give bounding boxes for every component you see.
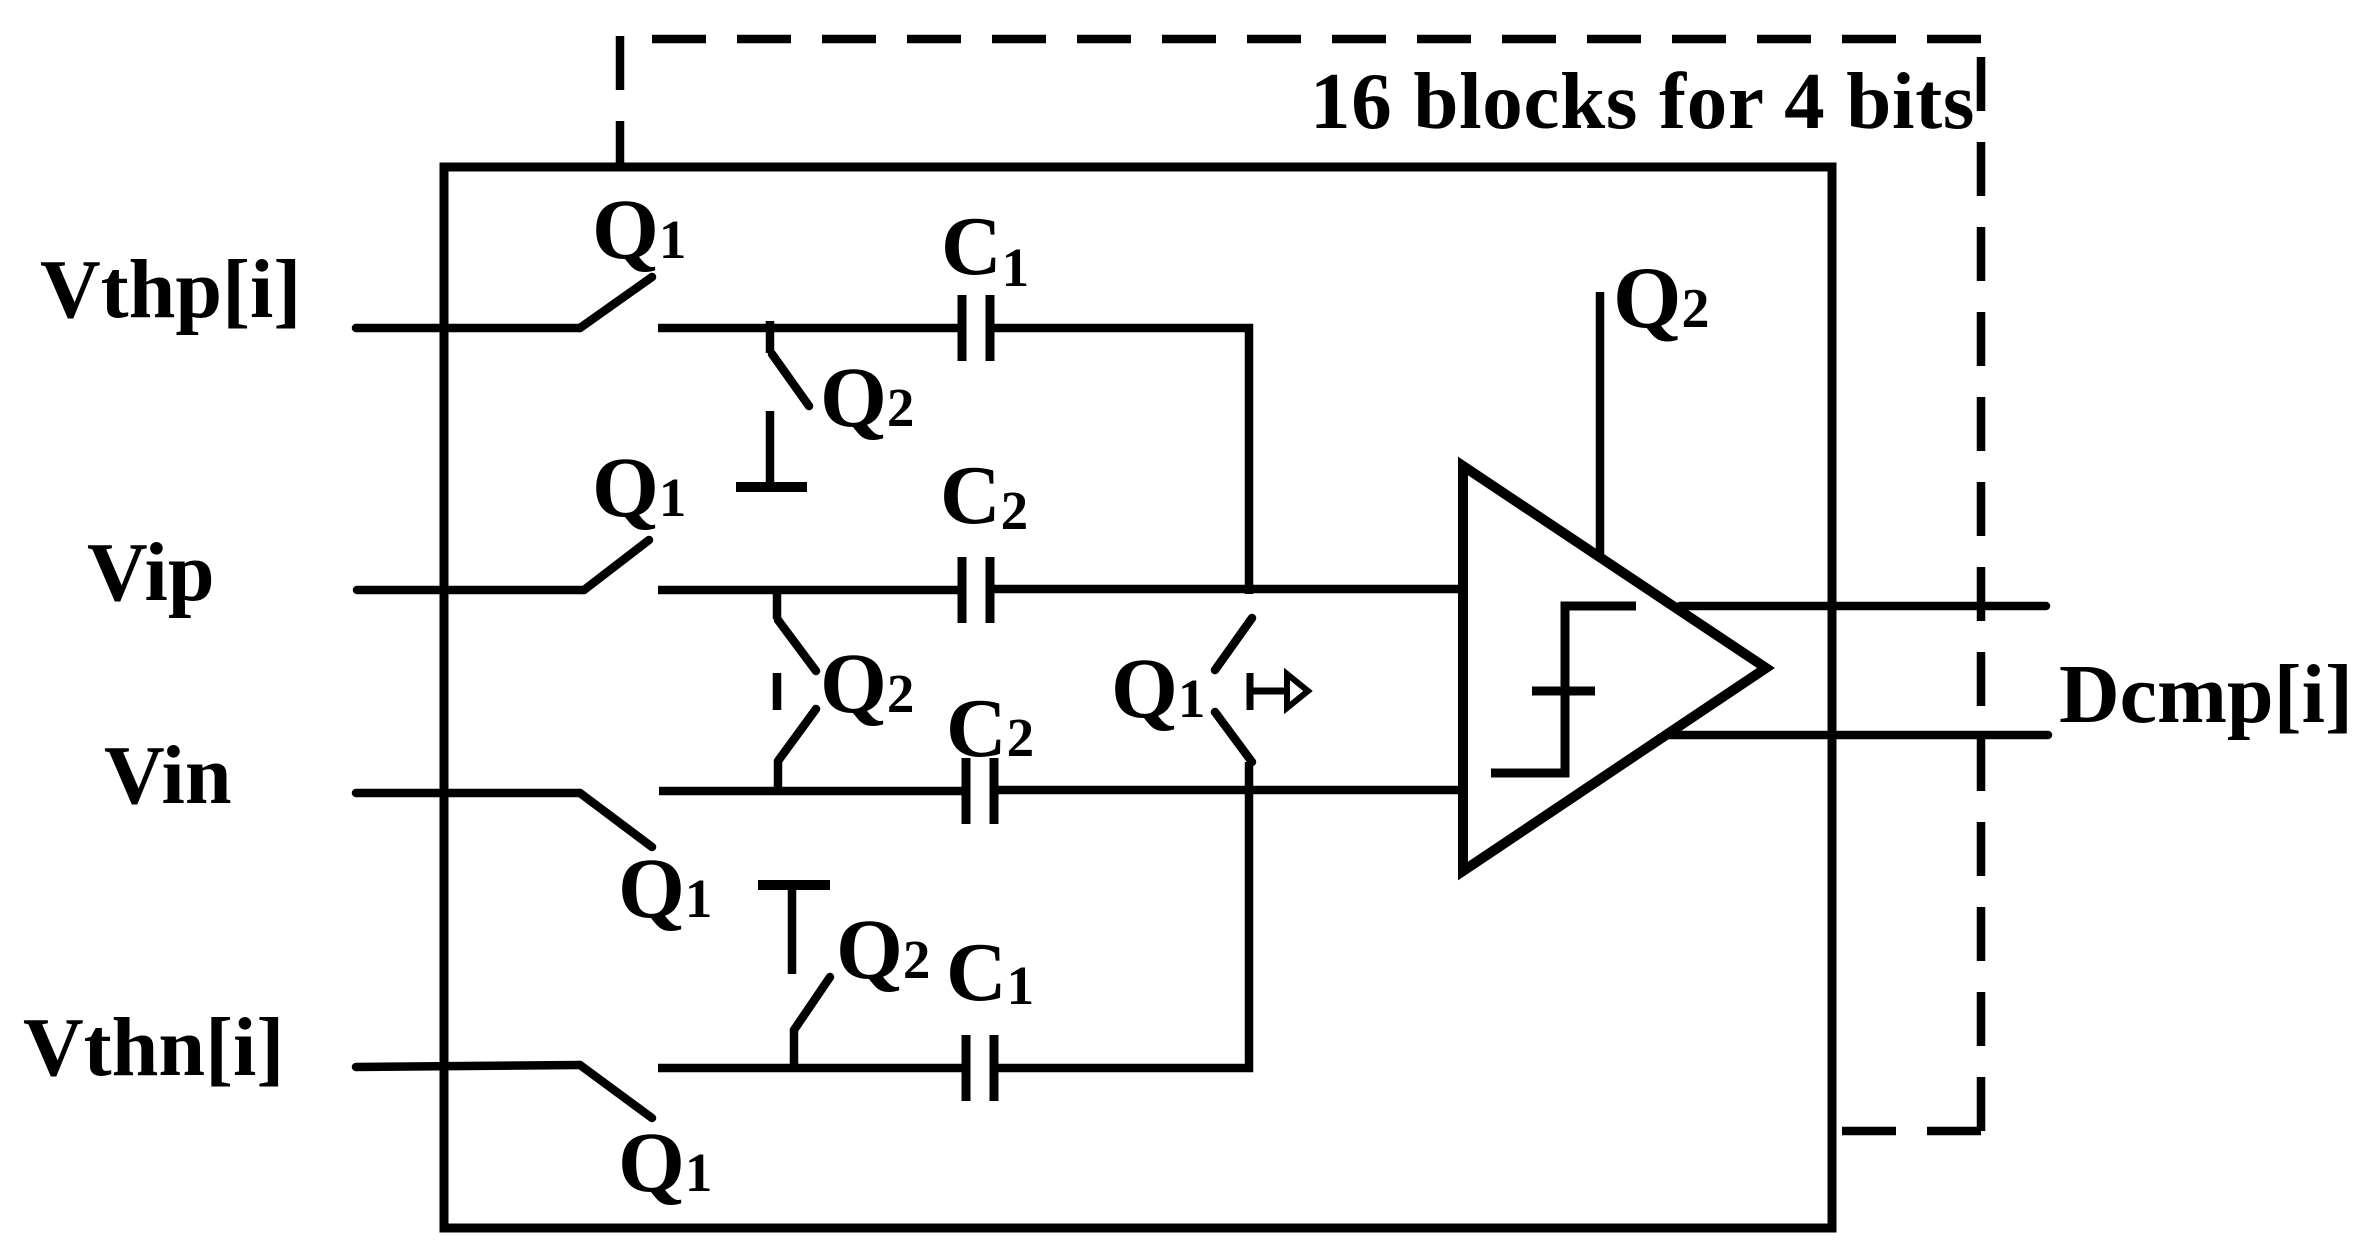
svg-text:Vin: Vin [104,729,232,822]
switch Q2 middle: stub from row2 wire [773,591,782,619]
contact post of Q2 top [766,411,775,487]
hysteresis symbol inside comparator [1491,606,1636,773]
wire row1 cap to corner [994,328,1249,594]
wire Vin input stub [356,789,580,798]
wire row4 to C1 [658,1064,962,1073]
capacitor C1 row1 [958,295,967,361]
switch Q2 middle lower arm [778,709,816,761]
comparator block box [444,167,1832,1228]
arrow symbol bar [1247,673,1254,710]
svg-text:16 blocks for 4 bits: 16 blocks for 4 bits [1310,56,1975,146]
wire row3 to C2 [659,787,962,796]
wire row1 to C1 [658,324,958,333]
capacitor C1 row4 [962,1035,971,1101]
switch Q2 middle stub to row3 wire [774,761,783,792]
arrow symbol shaft [1250,688,1286,695]
svg-text:Vthn[i]: Vthn[i] [23,1001,284,1094]
switch Q1 middle upper arm [1215,618,1252,670]
capacitor C2 row3 [962,758,971,824]
wire Vip input stub [357,586,584,595]
dashed block boundary: bottom edge [1832,1127,1981,1136]
svg-text:Vip: Vip [87,526,215,619]
wire row3 cap to comparator - input [998,786,1463,795]
dashed block boundary: left edge [616,36,625,167]
switch Q1 row3 arm [580,793,652,847]
switch Q2 bottom stub to row4 wire [790,1030,799,1066]
dashed block boundary: right edge [1977,39,1986,1131]
contact post of Q2 bottom [758,880,830,890]
switch Q2 top: stub from row1 wire [766,321,775,353]
wire row2 to C2 [658,586,958,595]
switch Q2 middle contact tick [773,673,782,710]
dashed block boundary: top edge [628,35,1981,44]
wire comparator output upper [1680,602,2046,611]
switch Q2 top arm [772,354,809,406]
switch Q2 bottom arm [794,977,830,1030]
switch Q1 middle lower arm [1215,712,1252,762]
comparator U1 triangle [1463,466,1766,871]
capacitor C2 row2 [958,557,967,623]
switch Q1 row1 arm [580,277,652,328]
svg-text:Dcmp[i]: Dcmp[i] [2059,648,2353,741]
wire Vthn[i] input stub [356,1065,580,1067]
arrow symbol head [1287,674,1308,708]
svg-text:Vthp[i]: Vthp[i] [40,243,301,336]
wire comparator output lower [1669,731,2048,740]
switch Q2 middle upper arm [778,620,816,671]
wire Vthp[i] input stub [356,324,580,333]
wire Q2 clock into comparator [1596,292,1605,554]
wire row4 cap to corner [998,762,1249,1068]
wire row2 cap to comparator + input [994,585,1463,594]
switch Q1 row4 arm [580,1065,652,1118]
switch Q1 row2 arm [584,540,649,590]
